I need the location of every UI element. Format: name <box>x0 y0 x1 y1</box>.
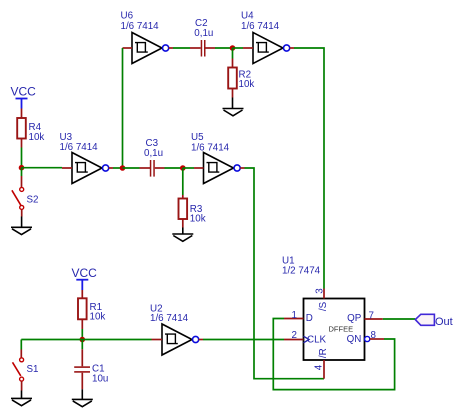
inverter U3 label <box>60 132 99 153</box>
wire S1 riser <box>20 340 22 350</box>
svg-text:10k: 10k <box>239 79 255 90</box>
svg-text:U6: U6 <box>121 11 134 22</box>
inverter U6 label <box>121 11 160 33</box>
wire U6 input down to node A <box>122 48 124 168</box>
svg-text:Out: Out <box>435 316 453 328</box>
svg-text:1/6 7414: 1/6 7414 <box>150 313 189 324</box>
svg-text:1/6 7414: 1/6 7414 <box>241 21 280 32</box>
wire node C to U3 input <box>22 167 63 169</box>
power VCC (middle row) <box>11 85 37 109</box>
svg-text:0,1u: 0,1u <box>194 28 213 39</box>
flip-flop U1 body <box>304 299 365 361</box>
node E junction <box>80 337 86 343</box>
resistor R3 <box>179 195 188 228</box>
wire node E down to C1 <box>81 340 83 350</box>
svg-text:4: 4 <box>314 364 325 370</box>
svg-text:CLK: CLK <box>307 334 327 345</box>
inverter U4 <box>243 33 294 64</box>
svg-text:3: 3 <box>314 288 325 294</box>
svg-text:/S: /S <box>318 301 329 311</box>
pin 1 D stub <box>284 310 313 324</box>
wire node B to U4 <box>233 47 244 49</box>
wire R1 to node E <box>81 329 83 340</box>
svg-text:1/6 7414: 1/6 7414 <box>191 143 230 154</box>
pin 7 QP stub <box>347 310 383 324</box>
node B junction <box>230 45 236 51</box>
flip-flop U1 label <box>282 256 321 277</box>
svg-text:1: 1 <box>292 310 297 321</box>
svg-text:S2: S2 <box>27 195 39 206</box>
svg-text:10k: 10k <box>90 312 106 323</box>
svg-text:8: 8 <box>371 330 377 341</box>
wire node C down to S2 <box>21 168 23 176</box>
wire U6 output to C2 <box>173 47 190 49</box>
capacitor C3 <box>140 160 165 177</box>
wire U3 output to node A <box>113 167 123 169</box>
inverter U4 label <box>241 11 280 33</box>
resistor R1 <box>78 290 87 329</box>
svg-text:S1: S1 <box>27 364 39 375</box>
capacitor C1 label <box>92 363 108 384</box>
wire QP to Out tag <box>383 318 416 320</box>
inverter U5 label <box>191 132 230 154</box>
pin 4 /R stub <box>314 348 329 378</box>
inverter U5 <box>194 153 245 184</box>
svg-text:2: 2 <box>292 330 297 341</box>
inverter U2 <box>152 324 204 355</box>
capacitor C2 label <box>194 18 213 39</box>
wire node E to U2 input <box>82 339 151 341</box>
wire node D down to R3 <box>182 168 184 195</box>
wire node D to U5 input <box>183 167 194 169</box>
svg-text:QP: QP <box>347 313 362 324</box>
ground below S1 <box>11 391 32 406</box>
wire node A to C3 <box>123 167 140 169</box>
ground below C1 <box>72 389 93 406</box>
wire U5 output to /R pin of U1 <box>245 168 325 379</box>
pin 2 CLK stub <box>284 330 327 345</box>
node A junction <box>120 165 126 171</box>
switch S2 <box>12 176 24 217</box>
svg-text:10k: 10k <box>190 214 206 225</box>
svg-text:1/6 7414: 1/6 7414 <box>121 21 160 32</box>
svg-text:1/2 7474: 1/2 7474 <box>282 266 321 277</box>
resistor R2 <box>228 59 237 98</box>
svg-text:DFFEE: DFFEE <box>329 324 354 333</box>
inverter U6 <box>123 33 174 64</box>
wire U2 output to CLK <box>203 339 284 341</box>
inverter U2 label <box>150 304 189 325</box>
svg-text:VCC: VCC <box>11 85 37 99</box>
capacitor C1 <box>74 349 90 389</box>
pin 3 /S stub <box>314 288 328 311</box>
capacitor C3 label <box>144 138 163 159</box>
svg-text:/R: /R <box>318 348 329 358</box>
svg-text:0,1u: 0,1u <box>144 148 163 159</box>
pin 8 QN stub with bubble <box>347 330 384 345</box>
Out tag <box>415 314 452 328</box>
wire C3 to node D <box>165 167 183 169</box>
svg-text:QN: QN <box>347 334 362 345</box>
resistor R2 label <box>239 69 255 90</box>
node C junction <box>19 165 25 171</box>
resistor R1 label <box>90 302 106 323</box>
inverter U3 <box>62 153 113 184</box>
wire C2 to node B <box>215 47 233 49</box>
svg-text:10k: 10k <box>29 132 45 143</box>
wire U4 output to /S pin of U1 <box>294 48 324 289</box>
wire R4 to node C <box>21 148 23 168</box>
node D junction <box>180 165 186 171</box>
resistor R3 label <box>190 204 206 225</box>
wire QN feedback to D <box>273 319 394 390</box>
svg-text:D: D <box>306 313 313 324</box>
svg-text:10u: 10u <box>92 374 108 385</box>
switch S1 <box>13 350 24 391</box>
ground below R3 <box>172 228 193 242</box>
svg-text:U4: U4 <box>241 11 254 22</box>
ground below R2 <box>223 98 244 116</box>
svg-text:U5: U5 <box>191 132 204 143</box>
svg-text:1/6 7414: 1/6 7414 <box>60 142 99 153</box>
svg-text:7: 7 <box>369 310 374 321</box>
power VCC (bottom row) <box>72 266 98 290</box>
ground below S2 <box>11 217 32 235</box>
wire S1 to node E <box>21 339 82 341</box>
capacitor C2 <box>190 40 215 57</box>
resistor R4 label <box>29 122 45 143</box>
svg-text:VCC: VCC <box>72 266 98 280</box>
wire node B down to R2 <box>232 48 234 59</box>
resistor R4 <box>17 109 26 148</box>
